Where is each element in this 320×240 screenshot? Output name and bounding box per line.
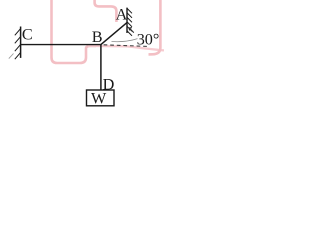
faint partial hatch smudge xyxy=(9,54,14,59)
member B-D (vertical) xyxy=(100,45,102,90)
angle leader curve xyxy=(112,39,138,42)
weight box xyxy=(87,90,115,106)
svg-text:C: C xyxy=(22,26,33,44)
wall A hatch xyxy=(127,9,132,36)
dashed reference line at B xyxy=(104,45,147,47)
watermark right stroke xyxy=(149,0,161,54)
angle arrow xyxy=(129,28,134,33)
svg-text:30°: 30° xyxy=(137,31,160,49)
background xyxy=(0,0,164,115)
member C-B (horizontal) xyxy=(21,44,101,46)
svg-text:W: W xyxy=(91,89,107,107)
svg-text:A: A xyxy=(116,5,128,23)
wall A line xyxy=(126,8,128,33)
watermark long band stroke xyxy=(88,46,164,51)
watermark left U stroke xyxy=(52,0,97,63)
member B-A (diagonal) xyxy=(101,22,127,44)
svg-text:B: B xyxy=(92,28,103,46)
wall C hatch xyxy=(15,29,20,59)
watermark top middle corner stroke xyxy=(95,0,117,22)
wall C line xyxy=(20,27,22,58)
